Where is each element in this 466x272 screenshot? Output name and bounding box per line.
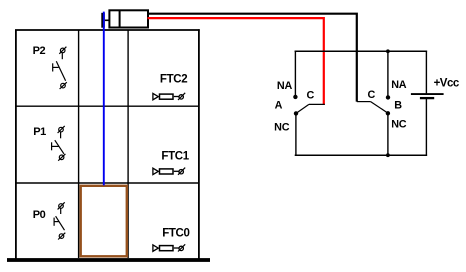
wire top rail to NA contact of B — [387, 51, 389, 97]
svg-text:+Vcc: +Vcc — [434, 77, 460, 89]
svg-text:NC: NC — [274, 122, 290, 134]
right edge wire below battery — [425, 99, 427, 156]
elevator car — [81, 186, 127, 256]
black motor wire to switch B — [148, 14, 357, 102]
svg-text:NC: NC — [391, 119, 407, 131]
motor M1 body — [109, 10, 148, 27]
limit sensor FTC0 — [153, 244, 185, 251]
NA contact dot of switch A — [293, 95, 297, 99]
battery +Vcc negative plate — [420, 97, 434, 99]
svg-text:NA: NA — [277, 80, 293, 92]
pulley — [101, 13, 105, 28]
pushbutton P0 — [54, 202, 65, 239]
blue hoist cable — [103, 12, 105, 186]
NA contact dot of switch B — [386, 95, 390, 99]
svg-text:B: B — [394, 100, 402, 112]
motor shaft — [105, 19, 109, 21]
building right wall — [198, 29, 200, 259]
wire pole of B to bottom rail — [387, 113, 389, 155]
svg-text:NA: NA — [391, 79, 407, 91]
pushbutton P1 — [52, 126, 66, 161]
switch A lever — [296, 104, 309, 113]
motor body divider — [119, 10, 121, 29]
battery +Vcc positive plate — [411, 93, 444, 95]
pole contact dot of switch A — [294, 111, 298, 115]
limit sensor FTC2 — [153, 93, 185, 100]
svg-text:A: A — [275, 100, 283, 112]
svg-text:FTC2: FTC2 — [160, 73, 187, 85]
switch A common horizontal segment — [309, 103, 325, 105]
shaft wall right (column divider 2) — [127, 31, 129, 259]
wire top rail to NA contact of A — [294, 51, 296, 97]
bottom rail wire — [295, 154, 427, 156]
floor divider between P2 and P1 level — [16, 105, 199, 107]
pole contact dot of switch B — [386, 111, 390, 115]
svg-text:P0: P0 — [33, 209, 46, 221]
junction dot top rail — [386, 49, 390, 53]
top rail wire — [295, 50, 428, 52]
svg-text:C: C — [368, 89, 376, 101]
floor divider between P1 and P0 level — [16, 182, 199, 184]
red motor wire to switch A — [148, 18, 324, 104]
right edge wire above battery — [425, 51, 427, 94]
building outer frame top wall — [15, 29, 200, 31]
limit sensor FTC1 — [153, 168, 185, 175]
svg-text:P1: P1 — [33, 126, 46, 138]
junction dot bottom rail — [386, 153, 390, 157]
building left wall — [15, 30, 17, 260]
shaft wall left (column divider 1) — [78, 31, 80, 259]
switch B common horizontal segment — [357, 101, 371, 103]
wire pole of A to bottom rail — [295, 113, 297, 155]
svg-text:FTC1: FTC1 — [161, 150, 189, 162]
svg-text:P2: P2 — [33, 45, 46, 57]
ground bar — [7, 258, 210, 262]
switch B lever — [371, 102, 388, 114]
svg-text:C: C — [307, 89, 315, 101]
pushbutton P2 — [53, 47, 67, 89]
svg-text:FTC0: FTC0 — [162, 228, 189, 240]
